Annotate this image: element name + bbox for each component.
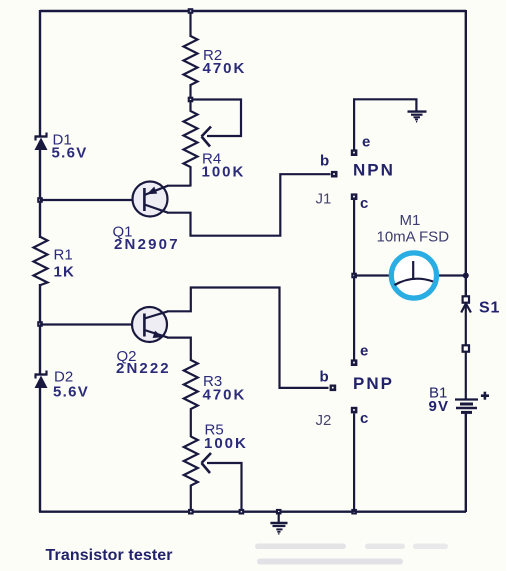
terminal c PNP: [351, 407, 358, 414]
switch S1: [461, 296, 471, 351]
wire NPN c down to PNP e: [353, 200, 355, 360]
svg-text:Transistor tester: Transistor tester: [46, 547, 173, 564]
node junction bottom R5: [188, 509, 194, 515]
node junction left-Q1base: [37, 197, 43, 203]
wire Q2 collector to PNP b: [167, 288, 329, 388]
svg-text:J2: J2: [316, 412, 332, 429]
watermark smudge 3: [413, 544, 448, 550]
svg-text:5.6V: 5.6V: [53, 384, 89, 401]
wire Q1 collector to NPN b: [167, 174, 331, 236]
wire right rail upper: [465, 10, 467, 296]
R5 wiper arrow: [202, 453, 212, 473]
terminal c NPN: [351, 193, 358, 200]
label R5 value: [204, 422, 248, 453]
potentiometer R4: [184, 100, 198, 187]
svg-text:5.6V: 5.6V: [52, 145, 88, 162]
node junction bottom ground: [276, 509, 282, 515]
svg-text:2N222: 2N222: [116, 360, 171, 377]
label Q2: [116, 348, 171, 377]
wire Q2 base from left rail: [40, 323, 145, 325]
label R2 value: [203, 47, 247, 77]
node junction R2-R4: [188, 97, 194, 103]
diode D1 zener: [35, 133, 48, 151]
terminal b PNP: [330, 385, 337, 392]
watermark smudge 4: [257, 559, 403, 565]
R4 wiper arrow: [202, 127, 212, 147]
label R4 value: [202, 151, 246, 181]
node junction meter wire right: [463, 273, 469, 279]
wire left rail upper: [39, 10, 41, 137]
resistor R2: [184, 10, 198, 100]
svg-text:R1: R1: [54, 247, 73, 264]
watermark smudge 1: [255, 544, 346, 550]
potentiometer R5: [184, 437, 198, 513]
svg-text:c: c: [360, 195, 368, 212]
svg-text:c: c: [360, 410, 368, 427]
svg-text:b: b: [320, 369, 329, 386]
svg-text:J1: J1: [316, 191, 332, 208]
wire PNP c to bottom rail: [353, 414, 355, 513]
svg-text:10mA FSD: 10mA FSD: [377, 229, 450, 246]
label B1 value: [429, 385, 450, 416]
wire Q1 base from left rail: [40, 199, 145, 201]
svg-text:470K: 470K: [203, 387, 247, 404]
wire NPN e to ground: [354, 99, 416, 150]
resistor R1: [34, 237, 48, 285]
svg-text:470K: 470K: [203, 60, 247, 77]
svg-text:100K: 100K: [204, 435, 248, 452]
resistor R3: [184, 360, 198, 437]
wire top rail: [40, 10, 466, 12]
wire left rail middle: [39, 149, 41, 238]
wire meter row: [354, 274, 466, 276]
label M1: [377, 212, 450, 246]
battery plus sign: [481, 392, 489, 400]
diode D2 zener: [35, 371, 48, 389]
wire Q1 emitter to R4: [167, 185, 191, 187]
node junction meter wire left: [351, 273, 357, 279]
wire Q2 emitter to R3: [167, 338, 191, 361]
svg-text:1K: 1K: [54, 264, 76, 281]
svg-text:PNP: PNP: [353, 374, 394, 393]
ground top-right: [408, 112, 427, 122]
terminal b NPN: [331, 171, 338, 178]
label Q1: [113, 224, 180, 254]
svg-text:NPN: NPN: [353, 161, 395, 180]
transistor Q1: [133, 182, 169, 217]
meter M1: [391, 253, 436, 298]
wire right rail lower: [465, 412, 467, 512]
label R3 value: [203, 373, 247, 404]
svg-text:2N2907: 2N2907: [114, 236, 180, 253]
battery B1: [455, 400, 478, 413]
wire R4 wiper loop: [193, 100, 241, 137]
node junction top rail R2: [188, 8, 194, 14]
svg-text:S1: S1: [479, 300, 500, 317]
svg-text:100K: 100K: [202, 164, 246, 181]
label D2 value: [53, 369, 89, 401]
svg-text:b: b: [320, 153, 329, 170]
transistor Q2: [132, 307, 168, 342]
wire bottom rail: [39, 511, 466, 513]
wire left rail lower: [39, 284, 41, 375]
node junction bottom wiper: [239, 509, 245, 515]
svg-text:9V: 9V: [429, 398, 450, 415]
wire left rail bottom: [39, 387, 41, 512]
svg-text:e: e: [360, 343, 368, 360]
wire R5 wiper loop: [207, 463, 242, 512]
label D1 value: [52, 132, 88, 162]
terminal e NPN: [351, 149, 358, 156]
node junction left-Q2base: [37, 321, 43, 327]
terminal e PNP: [351, 359, 358, 366]
ground bottom: [270, 512, 287, 534]
svg-text:M1: M1: [400, 212, 421, 229]
svg-text:e: e: [362, 134, 370, 151]
label R1 value: [54, 247, 76, 281]
wire S1 to battery: [465, 352, 467, 399]
watermark smudge 2: [365, 544, 405, 550]
node junction bottom PNP c: [351, 509, 357, 515]
